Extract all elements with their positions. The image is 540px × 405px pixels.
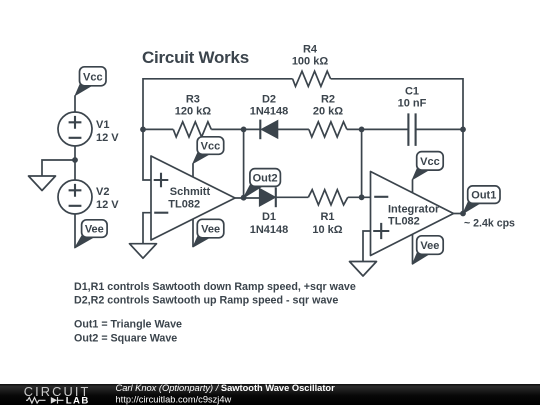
resistor R2 (309, 122, 347, 137)
svg-text:20 kΩ: 20 kΩ (313, 106, 343, 118)
svg-text:100 kΩ: 100 kΩ (292, 56, 329, 68)
svg-text:R4: R4 (303, 44, 318, 56)
svg-text:D1,R1 controls Sawtooth down R: D1,R1 controls Sawtooth down Ramp speed,… (74, 281, 356, 293)
logo CIRCUIT LAB (24, 384, 91, 405)
svg-text:Vcc: Vcc (201, 141, 221, 153)
svg-text:Out1: Out1 (471, 190, 496, 202)
annotation lines (74, 281, 356, 345)
svg-text:120 kΩ: 120 kΩ (175, 106, 212, 118)
svg-text:V2: V2 (96, 186, 109, 198)
net flag Out1 (463, 186, 500, 214)
junction R3-D2 (241, 126, 247, 132)
wire U1 Vcc stub (192, 163, 194, 177)
svg-text:10 kΩ: 10 kΩ (312, 224, 342, 236)
net flag Out2 (244, 169, 281, 198)
ground U1 minus (130, 244, 157, 259)
wire U2 plus to ground (363, 231, 371, 262)
op-amp U1 Schmitt TL082 (151, 156, 235, 240)
svg-text:Circuit Works: Circuit Works (142, 48, 249, 67)
diode D2 1N4148 (244, 120, 309, 140)
wire Vcc to V1 (74, 95, 76, 112)
diode D1 1N4148 (259, 187, 308, 207)
wire feedback up from U1 output (243, 129, 245, 198)
svg-text:http://circuitlab.com/c9szj4w: http://circuitlab.com/c9szj4w (116, 394, 232, 404)
wire U1 minus to ground (143, 213, 151, 244)
junction left rail (140, 126, 146, 132)
wire U2 output (454, 213, 464, 215)
footer credit (116, 383, 336, 404)
svg-text:1N4148: 1N4148 (250, 224, 289, 236)
wire V2 to Vee (74, 214, 76, 248)
svg-text:D1: D1 (262, 211, 276, 223)
svg-text:Vee: Vee (420, 240, 439, 252)
svg-text:Out2: Out2 (253, 173, 278, 185)
net flag Vee (U1) (193, 219, 224, 247)
svg-text:10 nF: 10 nF (398, 97, 427, 109)
wire R2/C1 junction down to U2 minus (361, 129, 363, 197)
voltage source V1 (58, 112, 92, 146)
wire V1 to V2 (74, 146, 76, 180)
svg-text:D2,R2 controls Sawtooth up Ram: D2,R2 controls Sawtooth up Ramp speed - … (74, 295, 338, 307)
svg-text:LAB: LAB (66, 395, 90, 405)
svg-text:12 V: 12 V (96, 199, 119, 211)
wire top rail left (143, 79, 293, 130)
svg-text:R2: R2 (321, 94, 335, 106)
svg-text:Out2 = Square Wave: Out2 = Square Wave (74, 332, 177, 344)
svg-text:R3: R3 (186, 94, 200, 106)
wire left vertical to plus input (143, 129, 151, 180)
net flag Vcc (V1 top) (75, 67, 106, 96)
wire U2 Vee stub (412, 234, 414, 264)
svg-text:Out1 = Triangle Wave: Out1 = Triangle Wave (74, 319, 182, 331)
svg-text:R1: R1 (320, 211, 334, 223)
svg-text:Schmitt: Schmitt (170, 186, 211, 198)
wire top rail right (331, 79, 463, 130)
ground left supply (29, 176, 56, 191)
junction C1-out rail (460, 126, 466, 132)
voltage source V2 (58, 180, 92, 214)
svg-text:~ 2.4k cps: ~ 2.4k cps (464, 217, 515, 229)
junction U2 out (460, 211, 466, 217)
op-amp U2 Integrator TL082 (371, 172, 454, 256)
svg-text:C1: C1 (405, 85, 419, 97)
junction R1-U2 (359, 194, 365, 200)
svg-text:Carl Knox (Optionparty) / Sawt: Carl Knox (Optionparty) / Sawtooth Wave … (116, 383, 336, 393)
net flag Vcc (U1) (193, 137, 224, 164)
resistor R1 (308, 190, 348, 205)
svg-text:D2: D2 (262, 94, 276, 106)
net flag Vee (V2 bottom) (75, 220, 107, 248)
junction R2-C1 (359, 126, 365, 132)
svg-text:Vcc: Vcc (83, 71, 103, 83)
wire junction to ground (42, 160, 75, 176)
wire U1 Vee stub (192, 219, 194, 247)
svg-text:Vee: Vee (85, 224, 104, 236)
wire U1 output (235, 197, 259, 199)
net flag Vcc (U2) (413, 152, 444, 180)
svg-text:1N4148: 1N4148 (250, 106, 289, 118)
svg-text:TL082: TL082 (388, 215, 420, 227)
svg-text:12 V: 12 V (96, 132, 119, 144)
wire U2 Vcc stub (412, 179, 414, 192)
svg-text:Vcc: Vcc (420, 156, 440, 168)
wire right vertical (462, 129, 464, 213)
svg-text:V1: V1 (96, 119, 109, 131)
svg-text:Integrator: Integrator (388, 203, 440, 215)
junction V1-V2 (72, 157, 78, 163)
net flag Vee (U2) (413, 236, 444, 264)
resistor R3 (143, 128, 173, 130)
svg-text:TL082: TL082 (168, 198, 200, 210)
junction U1 out (241, 195, 247, 201)
svg-text:Vee: Vee (201, 224, 220, 236)
capacitor C1 10 nF (408, 113, 463, 145)
ground U2 plus (350, 262, 377, 277)
resistor R4 (293, 71, 331, 86)
